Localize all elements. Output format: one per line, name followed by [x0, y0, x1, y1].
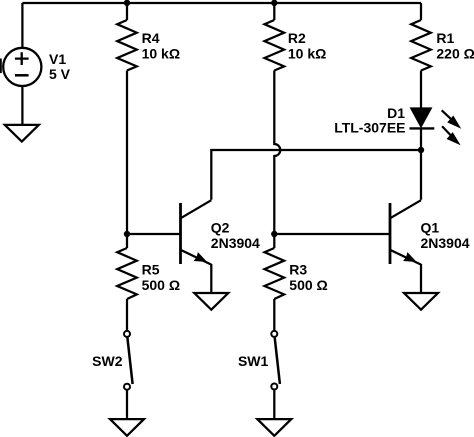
wire R3 to SW1	[273, 299, 275, 330]
svg-text:10 kΩ: 10 kΩ	[142, 46, 180, 62]
svg-text:500 Ω: 500 Ω	[289, 277, 327, 293]
ground (V1)	[5, 125, 39, 142]
wire R2 top lead	[273, 3, 275, 20]
wire SW2 to ground	[126, 390, 128, 419]
wire R5 to SW2	[126, 299, 128, 330]
svg-text:2N3904: 2N3904	[421, 235, 470, 251]
resistor R5	[117, 248, 180, 299]
svg-text:Q1: Q1	[421, 219, 440, 235]
wire Q1 base	[274, 233, 390, 235]
voltage source V1	[3, 48, 70, 86]
wire Q1 emitter to ground	[420, 264, 422, 293]
ground (SW2)	[110, 419, 144, 436]
svg-text:R2: R2	[288, 30, 306, 46]
transistor Q1	[390, 200, 470, 264]
switch SW2	[92, 331, 132, 390]
wire top rail	[22, 2, 421, 4]
svg-text:R3: R3	[289, 262, 307, 278]
ground (SW1)	[257, 419, 291, 436]
wire R4 top lead	[126, 3, 128, 20]
svg-text:Q2: Q2	[211, 219, 230, 235]
resistor R4	[117, 20, 180, 71]
ground (Q2 emitter)	[194, 293, 228, 310]
wire R1 to LED	[420, 71, 422, 108]
svg-text:SW1: SW1	[238, 353, 269, 369]
wire Q2 base	[127, 233, 181, 235]
stray mark at left edge	[0, 59, 2, 74]
svg-text:R4: R4	[142, 30, 160, 46]
wire Q2 emitter to ground	[210, 264, 212, 293]
svg-text:R1: R1	[436, 30, 454, 46]
junction dot top rail at R4	[124, 0, 130, 6]
svg-text:D1: D1	[387, 105, 405, 121]
resistor R1	[411, 20, 474, 71]
wire V1 to ground	[21, 87, 23, 126]
wire LED cathode to Q1 collector	[420, 128, 422, 199]
svg-text:R5: R5	[142, 262, 160, 278]
junction dot top rail at R2	[271, 0, 277, 6]
resistor R3	[265, 248, 328, 299]
ground (Q1 emitter)	[404, 293, 438, 310]
wire R4 bottom to node A	[126, 71, 128, 249]
svg-text:V1: V1	[49, 51, 66, 67]
svg-text:LTL-307EE: LTL-307EE	[334, 120, 405, 136]
wire R2 bottom with hop over collector wire to node B	[274, 71, 280, 249]
wire V1 top lead	[21, 3, 23, 48]
LED D1	[334, 105, 461, 145]
wire SW1 to ground	[273, 390, 275, 419]
switch SW1	[238, 331, 280, 390]
resistor R2	[265, 20, 327, 71]
svg-text:2N3904: 2N3904	[211, 235, 260, 251]
node B junction dot (R2/R3/Q1 base)	[271, 231, 277, 237]
node A junction dot (R4/R5/Q2 base)	[124, 231, 130, 237]
svg-text:500 Ω: 500 Ω	[142, 277, 180, 293]
svg-text:5 V: 5 V	[49, 66, 71, 82]
transistor Q2	[181, 200, 261, 264]
wire Q2 collector to node C horizontal	[211, 150, 421, 200]
wire R1 top lead	[420, 3, 422, 20]
svg-text:SW2: SW2	[92, 353, 123, 369]
svg-text:220 Ω: 220 Ω	[436, 46, 474, 62]
svg-text:10 kΩ: 10 kΩ	[288, 46, 326, 62]
node C junction dot (LED cathode/collectors)	[418, 147, 424, 153]
